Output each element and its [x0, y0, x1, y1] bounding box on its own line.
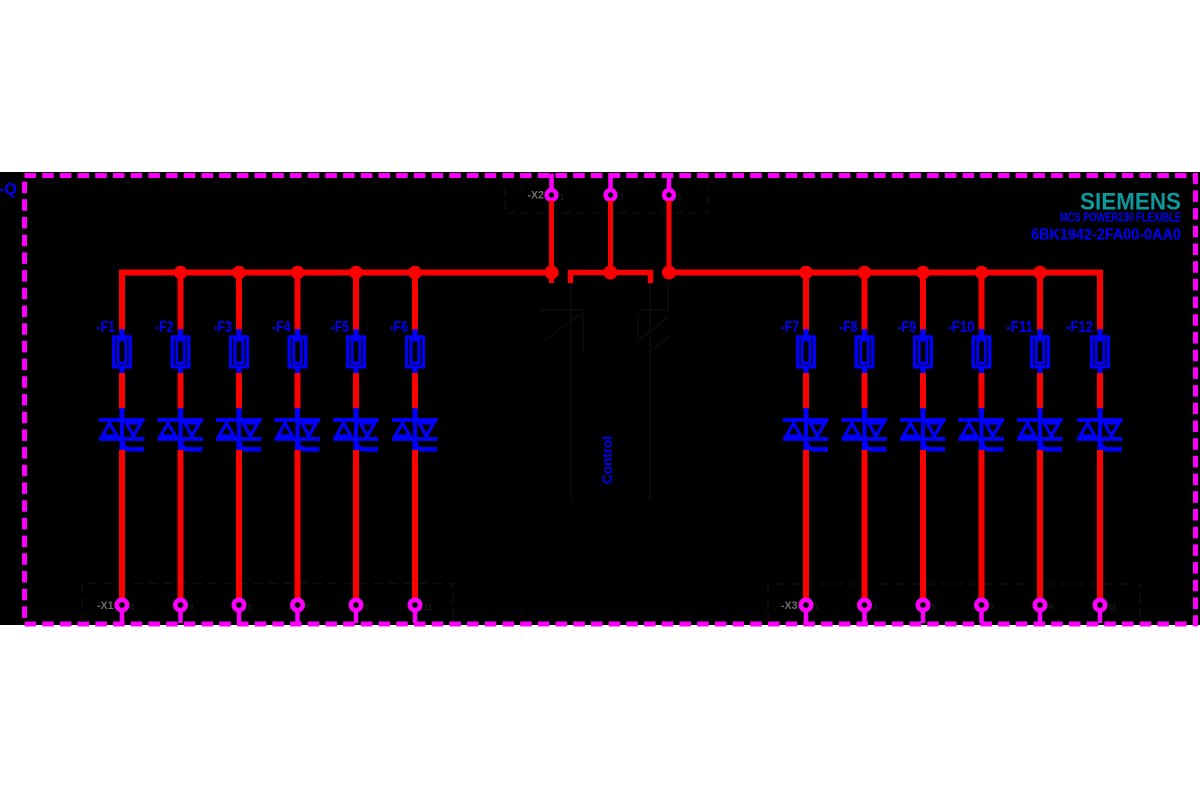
terminal -X3:11 circle: [1095, 600, 1105, 610]
switch contact K2 (faint): [638, 310, 670, 352]
fuse F10 bottom stub: [979, 367, 984, 375]
svg-text:1: 1: [131, 603, 136, 612]
thyristor pair V10 top lead: [979, 408, 984, 419]
thyristor pair V3 bottom lead: [237, 440, 242, 451]
svg-text:1: 1: [815, 603, 820, 612]
wire: F12 thyristor to terminal: [1097, 450, 1103, 599]
junction dot on bus at F4: [291, 266, 305, 280]
fuse F10 top stub: [979, 329, 984, 337]
terminal -X1:5 circle: [234, 600, 244, 610]
svg-text:-F6: -F6: [390, 319, 409, 336]
terminal strip X1 outline (faint): [82, 584, 453, 623]
thyristor pair V10 gate: [981, 439, 1004, 449]
terminal -X2:1 stub through border: [549, 174, 554, 191]
thyristor pair V12 top bar: [1077, 418, 1123, 422]
wire: leg F7 from bus to fuse: [803, 273, 809, 332]
thyristor pair V6 gate: [415, 439, 438, 449]
thyristor pair V5 top lead: [354, 408, 359, 419]
thyristor pair V8 bottom lead: [862, 440, 867, 451]
svg-text:-X2: -X2: [528, 190, 545, 202]
thyristor pair V5 center link: [354, 420, 358, 439]
thyristor pair V7 bottom lead: [804, 440, 809, 451]
wire: F1 fuse to thyristor: [119, 373, 125, 409]
terminal -X1:1 stub through border: [120, 611, 125, 624]
thyristor V11a triangle (points up): [1020, 423, 1035, 436]
thyristor pair V4 center link: [296, 420, 300, 439]
svg-text:-F10: -F10: [948, 319, 975, 336]
thyristor pair V10 bottom lead: [979, 440, 984, 451]
terminal -X1:1 circle: [117, 600, 127, 610]
terminal -X1:3 stub through border: [178, 611, 183, 624]
fuse F5 body: [348, 337, 365, 367]
junction dot on bus at F8: [858, 266, 872, 280]
thyristor V7a triangle (points up): [786, 423, 801, 436]
thyristor pair V2 top lead: [178, 408, 183, 419]
svg-text:-F7: -F7: [781, 319, 800, 336]
thyristor pair V7 top lead: [804, 408, 809, 419]
fuse F5 bottom stub: [354, 367, 359, 375]
wire: leg F2 from bus to fuse: [178, 273, 184, 332]
terminal -X2:5 stub through border: [667, 174, 672, 191]
svg-text:5: 5: [248, 603, 253, 612]
thyristor pair V12 bottom bar: [1077, 437, 1123, 441]
terminal -X1:11 circle: [410, 600, 420, 610]
fuse F6 bottom stub: [413, 367, 418, 375]
thyristor pair V11 center link: [1038, 420, 1042, 439]
wire: main bus right segment: [663, 270, 1103, 276]
svg-text:1: 1: [560, 193, 565, 202]
thyristor V2b triangle (points down): [185, 423, 200, 436]
wire: terminal -X2:3 down to bus: [608, 201, 613, 273]
fuse F6 top stub: [413, 329, 418, 337]
fuse F2 bottom stub: [178, 367, 183, 375]
thyristor V12b triangle (points down): [1104, 423, 1119, 436]
thyristor pair V2 top bar: [158, 418, 204, 422]
fuse F9 body: [915, 337, 932, 367]
thyristor V10a triangle (points up): [962, 423, 977, 436]
thyristor pair V11 top lead: [1038, 408, 1043, 419]
thyristor pair V11 bottom bar: [1017, 437, 1063, 441]
wire: leg F1 from bus to fuse: [119, 270, 125, 332]
thyristor pair V9 top bar: [900, 418, 946, 422]
thyristor pair V12 top lead: [1098, 408, 1103, 419]
thyristor pair V3 top bar: [216, 418, 262, 422]
svg-text:-F9: -F9: [898, 319, 917, 336]
thyristor pair V6 bottom bar: [392, 437, 438, 441]
thyristor pair V3 bottom bar: [216, 437, 262, 441]
terminal -X3:3 circle: [859, 600, 869, 610]
thyristor V9a triangle (points up): [903, 423, 918, 436]
terminal -X2:1 circle: [547, 190, 557, 200]
thyristor pair V5 bottom bar: [333, 437, 379, 441]
thyristor V4a triangle (points up): [278, 423, 293, 436]
fuse F12 bottom stub: [1098, 367, 1103, 375]
thyristor pair V10 bottom bar: [959, 437, 1005, 441]
thyristor pair V1 bottom bar: [99, 437, 145, 441]
wire: F6 thyristor to terminal: [412, 450, 418, 599]
thyristor pair V9 gate: [923, 439, 946, 449]
thyristor pair V6 center link: [413, 420, 417, 439]
thyristor pair V8 bottom bar: [842, 437, 888, 441]
fuse F3 top stub: [237, 329, 242, 337]
svg-text:9: 9: [1049, 603, 1054, 612]
svg-text:-F5: -F5: [331, 319, 350, 336]
terminal -X2:3 stub through border: [608, 174, 613, 191]
svg-text:11: 11: [424, 603, 433, 612]
wire: F7 fuse to thyristor: [803, 373, 809, 409]
control block left lead wire (faint): [570, 283, 572, 500]
thyristor pair V8 gate: [864, 439, 887, 449]
thyristor pair V2 center link: [179, 420, 183, 439]
wire: main bus left segment: [119, 270, 558, 276]
fuse F5 top stub: [354, 329, 359, 337]
junction dot on bus at F10: [975, 266, 989, 280]
thyristor pair V4 bottom bar: [275, 437, 321, 441]
fuse F8 bottom stub: [862, 367, 867, 375]
terminal -X2:3 circle: [606, 190, 616, 200]
thyristor pair V9 top lead: [921, 408, 926, 419]
junction dot on bus at F6: [408, 266, 422, 280]
terminal -X1:7 circle: [292, 600, 302, 610]
fuse F10 body: [973, 337, 990, 367]
wire: F8 fuse to thyristor: [862, 373, 868, 409]
thyristor V1a triangle (points up): [102, 423, 117, 436]
svg-text:-F11: -F11: [1006, 319, 1033, 336]
fuse F2 body: [172, 337, 189, 367]
thyristor pair V7 top bar: [783, 418, 829, 422]
fuse F7 bottom stub: [804, 367, 809, 375]
fuse F9 bottom stub: [921, 367, 926, 375]
svg-text:-F4: -F4: [272, 319, 291, 336]
junction dot on bus at F7: [799, 266, 813, 280]
thyristor pair V5 bottom lead: [354, 440, 359, 451]
svg-text:-F12: -F12: [1066, 319, 1093, 336]
thyristor pair V11 top bar: [1017, 418, 1063, 422]
thyristor pair V1 top bar: [99, 418, 145, 422]
wire: control bracket segment: [571, 273, 651, 284]
fuse F4 bottom stub: [295, 367, 300, 375]
wire: F5 thyristor to terminal: [353, 450, 359, 599]
fuse F11 top stub: [1038, 329, 1043, 337]
svg-text:-X3: -X3: [781, 600, 798, 612]
terminal -X3:1 circle: [801, 600, 811, 610]
terminal -X1:9 stub through border: [354, 611, 359, 624]
thyristor pair V1 center link: [120, 420, 124, 439]
wire: leg F3 from bus to fuse: [236, 273, 242, 332]
thyristor V4b triangle (points down): [302, 423, 317, 436]
thyristor pair V7 center link: [804, 420, 808, 439]
wire: leg F11 from bus to fuse: [1037, 273, 1043, 332]
thyristor pair V8 center link: [863, 420, 867, 439]
thyristor pair V2 bottom bar: [158, 437, 204, 441]
thyristor V2a triangle (points up): [161, 423, 176, 436]
wire: F9 thyristor to terminal: [920, 450, 926, 599]
wire: F3 fuse to thyristor: [236, 373, 242, 409]
fuse F2 top stub: [178, 329, 183, 337]
thyristor V3a triangle (points up): [219, 423, 234, 436]
wire: F10 thyristor to terminal: [979, 450, 985, 599]
junction dot at X2:5 feed: [662, 266, 676, 280]
fuse F3 body: [231, 337, 248, 367]
black drawing area: [0, 172, 1200, 625]
thyristor V5b triangle (points down): [360, 423, 375, 436]
wire: leg F10 from bus to fuse: [979, 273, 985, 332]
thyristor pair V7 bottom bar: [783, 437, 829, 441]
thyristor pair V4 top lead: [295, 408, 300, 419]
svg-text:9: 9: [365, 603, 370, 612]
thyristor V6b triangle (points down): [419, 423, 434, 436]
thyristor pair V4 bottom lead: [295, 440, 300, 451]
enclosure -Q dashed border: [25, 176, 1196, 625]
fuse F1 top stub: [120, 329, 125, 337]
wire: F11 fuse to thyristor: [1037, 373, 1043, 409]
svg-text:6BK1942-2FA00-0AA0: 6BK1942-2FA00-0AA0: [1031, 227, 1181, 244]
terminal -X3:9 circle: [1035, 600, 1045, 610]
thyristor pair V12 gate: [1100, 439, 1123, 449]
fuse F3 bottom stub: [237, 367, 242, 375]
thyristor pair V4 top bar: [275, 418, 321, 422]
fuse F1 bottom stub: [120, 367, 125, 375]
wire: leg F8 from bus to fuse: [862, 273, 868, 332]
fuse F7 top stub: [804, 329, 809, 337]
fuse F6 body: [407, 337, 424, 367]
wire: F8 thyristor to terminal: [862, 450, 868, 599]
thyristor pair V5 top bar: [333, 418, 379, 422]
wire: F12 fuse to thyristor: [1097, 373, 1103, 409]
svg-text:7: 7: [990, 603, 995, 612]
thyristor V10b triangle (points down): [986, 423, 1001, 436]
wire: leg F4 from bus to fuse: [295, 273, 301, 332]
fuse F11 bottom stub: [1038, 367, 1043, 375]
svg-text:3: 3: [619, 193, 624, 202]
thyristor V8a triangle (points up): [845, 423, 860, 436]
terminal -X3:11 stub through border: [1098, 611, 1103, 624]
svg-text:-F2: -F2: [155, 319, 174, 336]
thyristor pair V1 gate: [122, 439, 145, 449]
fuse F12 body: [1092, 337, 1109, 367]
fuse F8 body: [856, 337, 873, 367]
wire: leg F6 from bus to fuse: [412, 273, 418, 332]
thyristor pair V9 bottom bar: [900, 437, 946, 441]
terminal -X3:3 stub through border: [862, 611, 867, 624]
terminal -X1:9 circle: [351, 600, 361, 610]
wire: F3 thyristor to terminal: [236, 450, 242, 599]
thyristor V12a triangle (points up): [1080, 423, 1095, 436]
thyristor V9b triangle (points down): [927, 423, 942, 436]
wire: F5 fuse to thyristor: [353, 373, 359, 409]
fuse F1 body: [114, 337, 131, 367]
thyristor pair V9 center link: [921, 420, 925, 439]
wire: F10 fuse to thyristor: [979, 373, 985, 409]
terminal -X1:11 stub through border: [413, 611, 418, 624]
thyristor pair V12 center link: [1098, 420, 1102, 439]
wire: F11 thyristor to terminal: [1037, 450, 1043, 599]
junction dot on bus at F5: [349, 266, 363, 280]
svg-text:Control: Control: [600, 436, 615, 484]
control block right lead wire (faint): [650, 283, 668, 500]
terminal -X3:7 circle: [976, 600, 986, 610]
wire: F4 thyristor to terminal: [295, 450, 301, 599]
terminal strip X3 outline (faint): [768, 584, 1140, 622]
wire: terminal -X2:5 down to bus: [667, 201, 672, 273]
thyristor pair V7 gate: [806, 439, 829, 449]
svg-text:-Q: -Q: [0, 181, 17, 198]
terminal -X3:9 stub through border: [1038, 611, 1043, 624]
thyristor pair V9 bottom lead: [921, 440, 926, 451]
wire: F7 thyristor to terminal: [803, 450, 809, 599]
thyristor V7b triangle (points down): [810, 423, 825, 436]
fuse F7 body: [798, 337, 815, 367]
junction dot on bus at F3: [232, 266, 246, 280]
junction dot at X2:3 on bracket: [604, 266, 618, 280]
terminal -X3:5 stub through border: [921, 611, 926, 624]
terminal -X1:3 circle: [175, 600, 185, 610]
terminal -X1:5 stub through border: [237, 611, 242, 624]
thyristor pair V8 top bar: [842, 418, 888, 422]
wire: F4 fuse to thyristor: [295, 373, 301, 409]
wire: terminal -X2:1 down to bus: [549, 201, 554, 273]
wire: F1 thyristor to terminal: [119, 450, 125, 599]
svg-text:3: 3: [189, 603, 194, 612]
thyristor pair V10 center link: [980, 420, 984, 439]
terminal -X3:1 stub through border: [804, 611, 809, 624]
wire: leg F12 from bus to fuse: [1097, 270, 1103, 332]
terminal -X1:7 stub through border: [295, 611, 300, 624]
thyristor pair V2 bottom lead: [178, 440, 183, 451]
wire: F6 fuse to thyristor: [412, 373, 418, 409]
thyristor pair V10 top bar: [959, 418, 1005, 422]
wire: F2 fuse to thyristor: [178, 373, 184, 409]
fuse F9 top stub: [921, 329, 926, 337]
thyristor pair V12 bottom lead: [1098, 440, 1103, 451]
thyristor pair V3 center link: [237, 420, 241, 439]
svg-text:MCS POWER230 FLEXIBLE: MCS POWER230 FLEXIBLE: [1060, 211, 1181, 225]
svg-text:-X1: -X1: [97, 600, 114, 612]
thyristor V3b triangle (points down): [243, 423, 258, 436]
svg-text:-F1: -F1: [97, 319, 116, 336]
thyristor V5a triangle (points up): [336, 423, 351, 436]
junction dot on bus at F2: [174, 266, 188, 280]
thyristor pair V3 gate: [239, 439, 262, 449]
thyristor pair V8 top lead: [862, 408, 867, 419]
thyristor V11b triangle (points down): [1044, 423, 1059, 436]
thyristor pair V5 gate: [356, 439, 379, 449]
junction dot on bus at F9: [916, 266, 930, 280]
fuse F12 top stub: [1098, 329, 1103, 337]
junction dot at X2:1 feed: [545, 266, 559, 280]
svg-text:-F8: -F8: [839, 319, 858, 336]
thyristor pair V3 top lead: [237, 408, 242, 419]
switch contact K1 (faint): [541, 310, 583, 352]
fuse F8 top stub: [862, 329, 867, 337]
svg-text:5: 5: [932, 603, 937, 612]
thyristor V8b triangle (points down): [869, 423, 884, 436]
thyristor V1b triangle (points down): [126, 423, 141, 436]
wire: leg F9 from bus to fuse: [920, 273, 926, 332]
junction dot on bus at F11: [1033, 266, 1047, 280]
thyristor pair V11 gate: [1040, 439, 1063, 449]
thyristor pair V4 gate: [297, 439, 320, 449]
terminal -X2:5 circle: [664, 190, 674, 200]
wire: leg F5 from bus to fuse: [353, 273, 359, 332]
thyristor pair V11 bottom lead: [1038, 440, 1043, 451]
fuse F4 body: [289, 337, 306, 367]
fuse F11 body: [1032, 337, 1049, 367]
svg-text:5: 5: [678, 193, 683, 202]
terminal strip X2 outline (faint): [505, 187, 708, 213]
svg-text:7: 7: [306, 603, 311, 612]
wire: F2 thyristor to terminal: [178, 450, 184, 599]
thyristor pair V1 top lead: [120, 408, 125, 419]
thyristor pair V6 top lead: [413, 408, 418, 419]
thyristor pair V1 bottom lead: [120, 440, 125, 451]
fuse F4 top stub: [295, 329, 300, 337]
wire: F9 fuse to thyristor: [920, 373, 926, 409]
svg-text:11: 11: [1109, 603, 1118, 612]
wire: stub below X2:1 junction: [549, 273, 554, 284]
thyristor V6a triangle (points up): [395, 423, 410, 436]
thyristor pair V6 top bar: [392, 418, 438, 422]
terminal -X3:7 stub through border: [979, 611, 984, 624]
svg-text:3: 3: [873, 603, 878, 612]
thyristor pair V2 gate: [180, 439, 203, 449]
terminal -X3:5 circle: [918, 600, 928, 610]
svg-text:-F3: -F3: [214, 319, 233, 336]
thyristor pair V6 bottom lead: [413, 440, 418, 451]
